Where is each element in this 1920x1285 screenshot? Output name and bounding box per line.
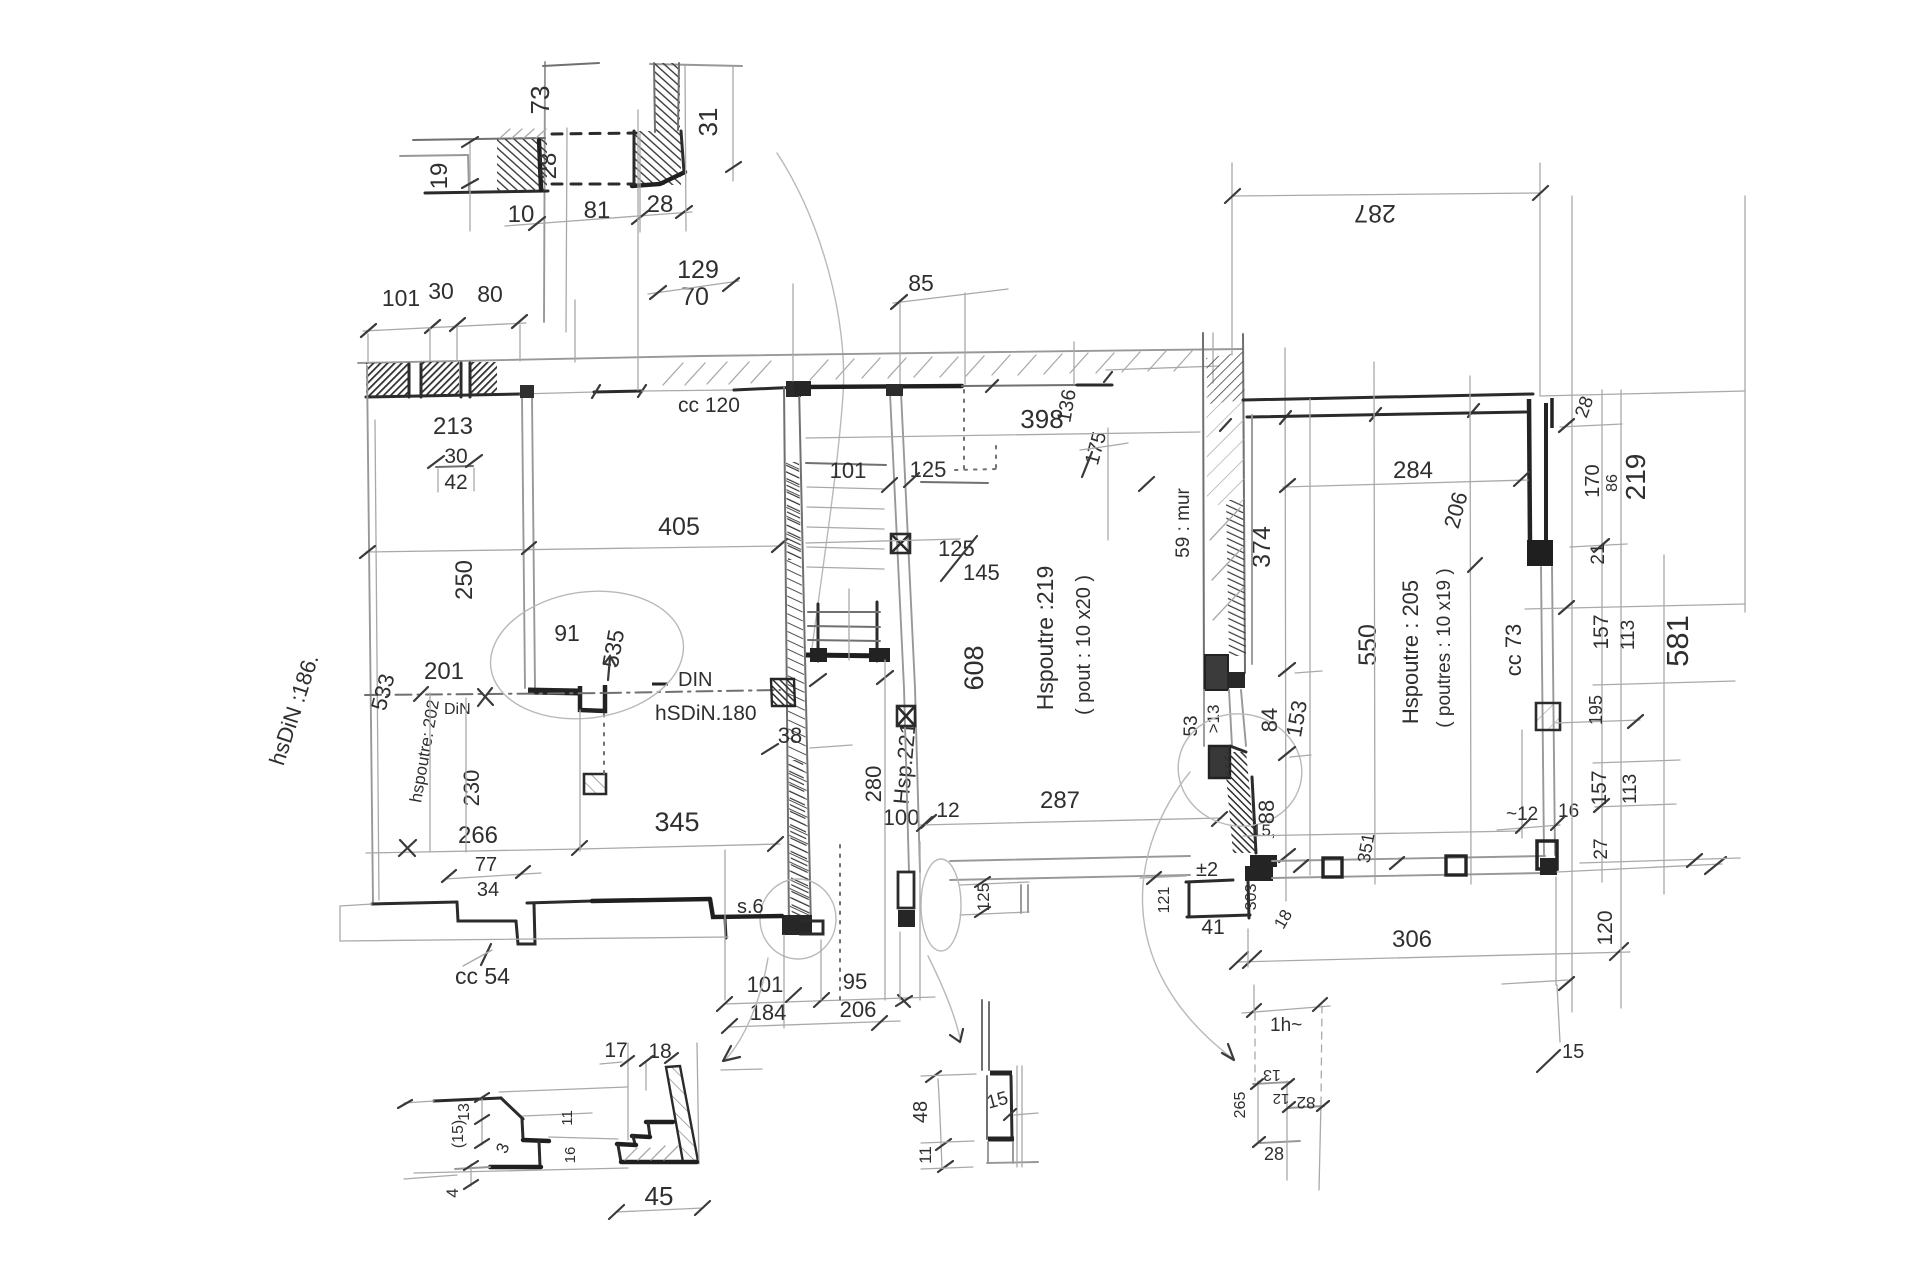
- svg-text:550: 550: [1354, 624, 1382, 666]
- jamb: right guide pair: [1017, 1066, 1022, 1167]
- wall band: window jamb pair 2: [461, 363, 470, 397]
- wall: stairwell right wall pair: [890, 393, 909, 872]
- svg-text:230: 230: [459, 770, 484, 807]
- section: slanted jamb: [501, 1098, 523, 1119]
- svg-text:38: 38: [778, 723, 802, 748]
- small arrow near 535: [604, 656, 615, 680]
- svg-text:42: 42: [444, 471, 467, 494]
- dim guide verticals: [732, 67, 734, 181]
- door swing circle at central wall foot: [760, 879, 836, 959]
- sparse hatch upper partition: [1206, 390, 1245, 505]
- svg-text:184: 184: [750, 1000, 787, 1025]
- pier square on right wall: [1536, 703, 1560, 730]
- wall detail: vertical guide pair: [544, 62, 545, 322]
- svg-text:121: 121: [1156, 887, 1173, 914]
- stairs: rails: [818, 602, 877, 661]
- svg-text:157: 157: [1588, 770, 1611, 805]
- svg-text:28: 28: [535, 153, 562, 180]
- svg-text:41: 41: [1201, 916, 1224, 939]
- dotted guide below wall 1: [603, 714, 605, 775]
- svg-text:15,: 15,: [1252, 821, 1276, 840]
- dim verticals with ticks: [481, 1097, 483, 1145]
- niche pier below: [584, 774, 606, 794]
- dim line 85: [893, 289, 1008, 303]
- section: top-left sill dark: [434, 1098, 501, 1101]
- svg-text:84: 84: [1257, 708, 1282, 732]
- hatch above jamb line: [500, 129, 546, 138]
- wall: central wall dark foot: [782, 915, 812, 935]
- wall: right building top double line: [1243, 394, 1533, 400]
- hatch inside step corner: [625, 1146, 678, 1160]
- svg-text:201: 201: [424, 658, 464, 685]
- small recess below middle room: [960, 882, 1029, 885]
- stairs: foot blobs: [810, 648, 827, 662]
- jamb: channel verticals: [986, 1076, 988, 1139]
- dim line 266 / 345: [366, 844, 780, 853]
- wall: middle-right partition verticals: [1203, 333, 1204, 690]
- svg-text:27: 27: [1591, 838, 1612, 859]
- construction horizontals: [1540, 391, 1745, 396]
- svg-text:195: 195: [1586, 695, 1606, 725]
- wall: left exterior: [367, 366, 373, 903]
- svg-text:(15): (15): [450, 1120, 467, 1148]
- svg-text:19: 19: [426, 163, 453, 190]
- svg-text:21: 21: [1588, 543, 1609, 564]
- svg-text:12: 12: [936, 799, 959, 822]
- section: dark steps right: [646, 1120, 673, 1124]
- wall band: inner dark segment: [594, 391, 642, 392]
- DIN dash-dot line: [365, 693, 605, 695]
- dotted lines near 125: [963, 390, 965, 470]
- svg-text:30: 30: [444, 445, 467, 468]
- svg-text:206: 206: [840, 997, 877, 1022]
- svg-text:Hspoutre : 205: Hspoutre : 205: [1398, 580, 1423, 724]
- svg-text:12: 12: [1273, 1090, 1290, 1107]
- svg-text:250: 250: [451, 560, 478, 600]
- svg-text:170: 170: [1582, 464, 1604, 497]
- svg-text:113: 113: [1620, 774, 1641, 804]
- svg-text:cc 54: cc 54: [455, 963, 510, 989]
- svg-text:( pout : 10 x20 ): ( pout : 10 x20 ): [1073, 575, 1095, 715]
- wall: top-right corner dark bar: [1529, 399, 1530, 545]
- svg-text:405: 405: [658, 513, 700, 541]
- middle room bottom wall pair: [950, 856, 1190, 861]
- wall band: dark pier at central wall top: [786, 381, 801, 397]
- svg-text:16: 16: [562, 1147, 579, 1164]
- sketch circle around Z block: [1169, 704, 1311, 836]
- wall: Z foot dark steps: [1250, 855, 1277, 867]
- opening lines in partition: [1203, 690, 1205, 746]
- wall band: outer line: [358, 349, 1243, 363]
- dim line under 129/70: [648, 281, 739, 294]
- section: right hatched block: [666, 1066, 698, 1162]
- wall: hatched jamb block: [497, 139, 547, 191]
- section: step: [523, 1140, 549, 1141]
- ticks: [1559, 419, 1702, 990]
- svg-text:31: 31: [693, 108, 723, 137]
- wall band: cc120 opening thin line: [642, 390, 734, 391]
- leader arc to bottom-right detail: [1142, 772, 1232, 1058]
- svg-text:s.6: s.6: [737, 896, 764, 918]
- svg-text:306: 306: [1392, 926, 1432, 953]
- svg-text:129: 129: [677, 256, 719, 284]
- svg-text:80: 80: [477, 281, 503, 307]
- hatch band on partition: [1226, 500, 1246, 656]
- wall: right wall lower light pair: [1541, 567, 1544, 855]
- wall band: long inner dark line: [801, 386, 962, 387]
- wall: dark corner block: [634, 131, 681, 185]
- svg-text:4: 4: [443, 1188, 462, 1197]
- dim line for 101 30 80: [363, 323, 526, 331]
- leader arrow to bottom-middle detail: [928, 956, 960, 1038]
- wall: dark block at partition base: [1205, 655, 1228, 690]
- svg-text:DiN: DiN: [444, 701, 471, 718]
- svg-text:91: 91: [554, 620, 580, 646]
- svg-text:30: 30: [428, 278, 454, 304]
- bottom outer light line: [340, 937, 728, 941]
- stairwell: shelf line: [806, 463, 886, 465]
- faint horizontal through rooms: [806, 432, 1200, 438]
- bottom dim line 45: [616, 1208, 703, 1212]
- pier outline on stairwell wall: [898, 872, 914, 908]
- svg-text:1h~: 1h~: [1270, 1015, 1302, 1036]
- wall: central thick wall: [784, 387, 789, 930]
- leader arrow to bottom-left detail: [726, 958, 768, 1059]
- svg-text:73: 73: [525, 86, 555, 115]
- leader arc from detail to plan: [777, 153, 844, 648]
- svg-text:28: 28: [647, 191, 674, 218]
- wall band: hatched segment 2: [421, 362, 459, 396]
- svg-text:345: 345: [654, 807, 699, 837]
- svg-text:cc 120: cc 120: [678, 394, 740, 417]
- crossed box 1: [891, 534, 910, 553]
- dim 142: [1242, 1006, 1330, 1013]
- svg-text:~12: ~12: [1506, 804, 1538, 825]
- svg-text:265: 265: [1232, 1092, 1249, 1119]
- wall: top edge lines: [543, 63, 599, 66]
- svg-text:cc 73: cc 73: [1501, 624, 1526, 677]
- svg-text:100: 100: [883, 805, 920, 830]
- stairs: rungs: [808, 612, 880, 641]
- svg-text:284: 284: [1393, 457, 1433, 484]
- svg-text:95: 95: [843, 969, 867, 994]
- dim line y550: [366, 546, 780, 552]
- corner pier L: [1537, 841, 1557, 869]
- wall: interior wall 1 vertical pair: [522, 397, 525, 688]
- wall: bottom of left building: [372, 902, 457, 904]
- svg-text:34: 34: [477, 879, 499, 901]
- dim lines 101/184 and 95/206: [724, 997, 935, 1004]
- label 287 dim: [920, 818, 1222, 825]
- svg-text:11: 11: [916, 1146, 935, 1164]
- wall band: hatched segment 1: [366, 363, 409, 396]
- small step lines: [1253, 1082, 1291, 1084]
- dim 15 bottom right: [1555, 877, 1557, 985]
- wall: dashed opening lines: [552, 133, 636, 134]
- svg-text:157: 157: [1590, 614, 1613, 649]
- pier squares on bottom wall: [1323, 858, 1342, 877]
- svg-text:113: 113: [1618, 620, 1639, 650]
- svg-text:125: 125: [910, 457, 947, 482]
- section: light reference lines: [499, 1087, 627, 1092]
- svg-text:77: 77: [475, 854, 497, 876]
- construction lines inside right room: [1309, 399, 1311, 875]
- svg-text:13: 13: [456, 1103, 473, 1121]
- dim 48 and 11: [938, 1079, 942, 1169]
- svg-text:DIN: DIN: [678, 669, 712, 691]
- wall: interior wall 1 bottom step (dark): [528, 691, 580, 692]
- svg-text:120: 120: [1594, 910, 1617, 945]
- svg-text:85: 85: [908, 270, 934, 296]
- wall band: inner thin line (opening): [520, 392, 594, 394]
- jamb: upper double vertical: [982, 1000, 989, 1070]
- svg-text:15: 15: [1562, 1041, 1584, 1063]
- svg-text:86: 86: [1604, 474, 1621, 492]
- svg-text:81: 81: [584, 197, 611, 224]
- svg-text:11: 11: [559, 1110, 576, 1126]
- svg-text:Hspoutre :219: Hspoutre :219: [1032, 566, 1058, 710]
- svg-text:101: 101: [382, 285, 420, 311]
- door swing circle right: [921, 859, 961, 951]
- svg-text:17: 17: [604, 1039, 627, 1062]
- dark square pier at stairwell wall bottom: [898, 910, 915, 927]
- small dark square pier: [1227, 672, 1245, 688]
- wall: left jamb lines: [413, 138, 545, 140]
- svg-text:303: 303: [1243, 884, 1260, 911]
- wall band: inner dark line left: [366, 394, 520, 397]
- wall: right building bottom double line: [1272, 856, 1545, 861]
- dim line 287 top: [1232, 193, 1540, 196]
- svg-text:10: 10: [508, 201, 535, 228]
- svg-text:287: 287: [1040, 787, 1080, 814]
- svg-text:581: 581: [1660, 615, 1695, 667]
- wall band: inner dark segment right of cc120: [734, 387, 800, 390]
- svg-text:48: 48: [910, 1101, 932, 1123]
- svg-text:266: 266: [458, 822, 498, 849]
- svg-text:±2: ±2: [1196, 859, 1218, 881]
- construction verticals left building: [429, 693, 431, 851]
- svg-text:219: 219: [1620, 454, 1651, 501]
- stairs: centerline: [848, 589, 850, 660]
- svg-text:287: 287: [1354, 199, 1396, 227]
- svg-text:608: 608: [959, 645, 989, 690]
- svg-text:hSDiN.180: hSDiN.180: [655, 702, 757, 725]
- svg-text:101: 101: [830, 458, 867, 483]
- dim vertical at 1286: [1285, 348, 1286, 901]
- crossed box 2: [897, 706, 915, 726]
- wall band: sparse hatch over opening: [663, 361, 771, 385]
- stairwell: faint flight lines: [807, 487, 884, 569]
- svg-text:59 : mur: 59 : mur: [1173, 487, 1194, 557]
- svg-text:145: 145: [963, 560, 1000, 585]
- svg-text:28: 28: [1264, 1144, 1284, 1164]
- svg-text:280: 280: [861, 766, 886, 803]
- jamb: dark top bar: [990, 1071, 1012, 1076]
- ellipse sketch around 91/535: [482, 579, 692, 731]
- svg-text:45: 45: [645, 1181, 674, 1211]
- jamb: dark bottom bar: [988, 1137, 1014, 1142]
- bottom-left recess of right building: [1186, 880, 1233, 882]
- wall: junction block on central wall: [771, 679, 795, 706]
- wall band: hatched segment 3: [470, 362, 497, 396]
- dim line 10-81-28: [505, 212, 692, 226]
- dim guide vertical with ticks: [469, 140, 471, 231]
- wall band: sparse hatch right part: [810, 351, 1192, 380]
- bottom wall extension line with arrow: [1557, 864, 1722, 872]
- svg-text:82: 82: [1297, 1093, 1316, 1112]
- jamb: lower light lines: [988, 1142, 1013, 1163]
- construction verticals: [1571, 196, 1573, 1012]
- wall: hatched pier top-right: [654, 63, 680, 132]
- wall: dark Z block: [1209, 746, 1230, 778]
- X tick at dim end: [896, 995, 912, 1007]
- svg-text:( poutres : 10 x19 ): ( poutres : 10 x19 ): [1434, 568, 1455, 727]
- construction verticals above band: [574, 300, 576, 362]
- wall band: window jamb pair: [409, 364, 421, 397]
- svg-text:13: 13: [1263, 1066, 1281, 1083]
- svg-text:213: 213: [433, 413, 473, 440]
- hatch at partition top: [1206, 352, 1245, 404]
